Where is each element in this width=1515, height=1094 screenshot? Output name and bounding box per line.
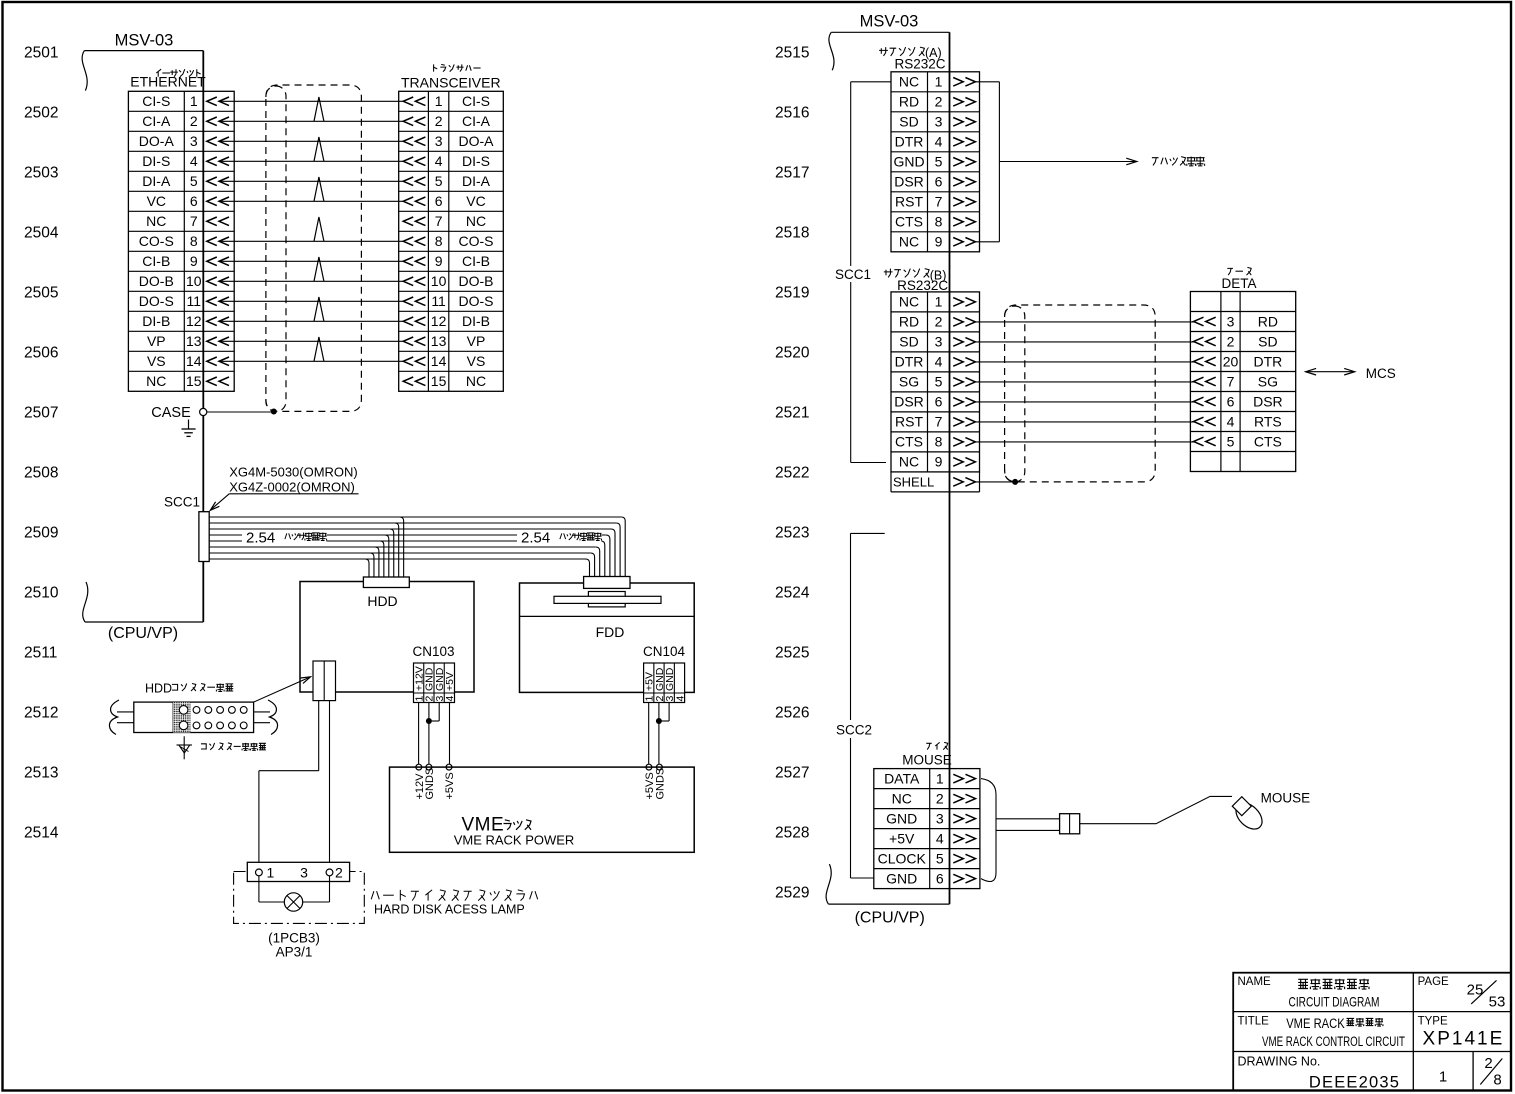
svg-text:DSR: DSR [1253,393,1283,409]
svg-text:DEEE2035: DEEE2035 [1309,1074,1400,1092]
svg-text:TRANSCEIVER: TRANSCEIVER [401,75,501,91]
svg-text:2519: 2519 [775,284,809,301]
svg-text:DTR: DTR [895,354,924,370]
svg-text:2509: 2509 [24,525,58,542]
svg-text:2514: 2514 [24,825,59,842]
svg-text:6: 6 [936,870,944,886]
svg-text:RS232C: RS232C [897,278,948,293]
svg-text:CIRCUIT DIAGRAM: CIRCUIT DIAGRAM [1289,994,1380,1010]
svg-text:2527: 2527 [775,764,809,781]
svg-text:RS232C: RS232C [894,57,945,72]
svg-text:NC: NC [899,294,919,310]
svg-text:2504: 2504 [24,225,59,242]
svg-text:2513: 2513 [24,765,58,782]
svg-text:NC: NC [892,790,912,806]
svg-text:SD: SD [899,114,918,130]
svg-text:RD: RD [899,314,919,330]
svg-text:13: 13 [431,333,447,349]
svg-text:CN104: CN104 [643,644,686,659]
svg-text:HDD: HDD [145,682,172,696]
svg-text:6: 6 [190,193,198,209]
svg-text:DTR: DTR [1254,353,1283,369]
svg-text:6: 6 [435,193,443,209]
svg-text:+5V: +5V [444,672,456,691]
svg-text:DO-S: DO-S [459,293,494,309]
svg-text:SD: SD [899,334,918,350]
svg-text:SHELL: SHELL [893,475,934,490]
svg-text:DSR: DSR [894,174,924,190]
svg-text:2: 2 [335,865,343,881]
svg-text:3: 3 [190,133,198,149]
svg-text:CI-S: CI-S [142,93,170,109]
svg-text:ETHERNET: ETHERNET [130,74,206,90]
svg-text:NC: NC [899,454,919,470]
svg-text:DI-A: DI-A [142,173,171,189]
svg-text:2: 2 [935,314,943,330]
svg-text:2515: 2515 [775,44,809,61]
svg-text:25: 25 [1467,982,1484,999]
svg-text:2512: 2512 [24,705,58,722]
svg-text:NC: NC [899,74,919,90]
svg-text:4: 4 [435,153,443,169]
svg-text:CTS: CTS [895,214,923,230]
svg-text:GND: GND [893,154,924,170]
svg-text:2: 2 [435,113,443,129]
svg-text:2529: 2529 [775,884,809,901]
svg-text:9: 9 [935,234,943,250]
svg-text:GND: GND [664,667,676,691]
svg-text:7: 7 [1227,373,1235,389]
svg-text:DO-A: DO-A [139,133,175,149]
svg-text:2511: 2511 [24,645,57,662]
svg-text:DTR: DTR [895,134,924,150]
svg-text:8: 8 [190,233,198,249]
svg-text:RTS: RTS [1254,413,1282,429]
svg-text:1: 1 [435,93,443,109]
svg-text:DRAWING No.: DRAWING No. [1238,1054,1321,1068]
svg-text:4: 4 [1227,413,1235,429]
svg-text:AP3/1: AP3/1 [276,944,313,959]
svg-text:SG: SG [1258,373,1278,389]
svg-text:2510: 2510 [24,585,59,602]
svg-text:9: 9 [435,253,443,269]
svg-text:DI-B: DI-B [462,313,490,329]
svg-text:4: 4 [936,830,944,846]
svg-text:VME RACK CONTROL CIRCUIT: VME RACK CONTROL CIRCUIT [1262,1034,1405,1049]
svg-text:DI-B: DI-B [142,313,170,329]
svg-text:13: 13 [186,333,202,349]
svg-text:2: 2 [1227,333,1235,349]
svg-text:XG4Z-0002(OMRON): XG4Z-0002(OMRON) [229,479,355,494]
svg-text:GNDS: GNDS [654,768,666,800]
svg-text:CI-A: CI-A [462,113,491,129]
svg-text:2: 2 [936,790,944,806]
svg-text:SG: SG [899,374,919,390]
svg-text:3: 3 [1227,313,1235,329]
svg-text:CI-B: CI-B [142,253,170,269]
svg-text:1: 1 [936,770,944,786]
svg-text:VME RACK: VME RACK [1286,1016,1345,1031]
svg-text:DETA: DETA [1221,276,1256,291]
svg-text:DSR: DSR [894,394,924,410]
svg-text:VS: VS [467,353,486,369]
svg-text:2507: 2507 [24,405,58,422]
svg-text:8: 8 [935,214,943,230]
svg-text:TITLE: TITLE [1238,1015,1270,1027]
svg-text:(1PCB3): (1PCB3) [268,930,320,945]
svg-text:2522: 2522 [775,464,809,481]
svg-text:1: 1 [935,74,943,90]
svg-text:2: 2 [935,94,943,110]
svg-text:3: 3 [435,133,443,149]
svg-text:15: 15 [186,373,202,389]
svg-text:4: 4 [935,134,943,150]
svg-text:7: 7 [935,414,943,430]
svg-text:DO-B: DO-B [459,273,494,289]
svg-text:2503: 2503 [24,165,58,182]
svg-text:CASE: CASE [151,405,191,421]
svg-text:SCC1: SCC1 [835,267,871,282]
svg-text:VME RACK POWER: VME RACK POWER [454,832,575,847]
svg-text:2: 2 [190,113,198,129]
svg-text:7: 7 [190,213,198,229]
svg-text:+5VS: +5VS [444,772,456,799]
svg-text:2518: 2518 [775,224,809,241]
svg-text:+5V: +5V [889,830,915,846]
svg-text:9: 9 [190,253,198,269]
svg-text:9: 9 [935,454,943,470]
svg-text:NC: NC [146,373,166,389]
svg-text:(CPU/VP): (CPU/VP) [855,910,925,927]
svg-text:NC: NC [899,234,919,250]
svg-text:5: 5 [936,850,944,866]
svg-text:NC: NC [146,213,166,229]
svg-text:2526: 2526 [775,704,809,721]
svg-text:VP: VP [467,333,486,349]
svg-text:3: 3 [300,865,308,881]
svg-text:2516: 2516 [775,104,809,121]
svg-text:MSV-03: MSV-03 [860,13,919,31]
svg-text:DO-S: DO-S [139,293,174,309]
svg-text:3: 3 [935,334,943,350]
svg-text:2502: 2502 [24,105,58,122]
svg-text:PAGE: PAGE [1418,976,1449,988]
svg-text:2508: 2508 [24,465,58,482]
svg-text:11: 11 [187,293,202,309]
svg-text:CLOCK: CLOCK [878,850,927,866]
svg-text:GND: GND [886,870,917,886]
svg-text:DI-S: DI-S [462,153,490,169]
svg-text:7: 7 [435,213,443,229]
svg-text:2521: 2521 [775,404,809,421]
svg-text:CI-B: CI-B [462,253,490,269]
svg-text:2520: 2520 [775,344,810,361]
svg-text:DI-S: DI-S [142,153,170,169]
svg-text:2501: 2501 [24,45,58,62]
svg-text:5: 5 [435,173,443,189]
svg-text:10: 10 [186,273,202,289]
svg-text:(CPU/VP): (CPU/VP) [108,625,178,642]
svg-text:4: 4 [935,354,943,370]
svg-text:15: 15 [431,373,447,389]
svg-text:2.54: 2.54 [521,530,550,547]
svg-text:14: 14 [431,353,447,369]
svg-text:4: 4 [674,696,686,702]
svg-text:4: 4 [444,696,456,702]
svg-text:RD: RD [899,94,919,110]
svg-text:14: 14 [186,353,202,369]
svg-text:2525: 2525 [775,644,809,661]
svg-text:GNDS: GNDS [424,768,436,800]
svg-text:8: 8 [935,434,943,450]
svg-text:CTS: CTS [895,434,923,450]
svg-text:CO-S: CO-S [459,233,494,249]
svg-text:5: 5 [935,154,943,170]
svg-text:MOUSE: MOUSE [1261,790,1311,805]
svg-text:1: 1 [190,93,198,109]
svg-text:1: 1 [1439,1069,1447,1086]
svg-text:SD: SD [1258,333,1277,349]
svg-text:CI-A: CI-A [142,113,171,129]
svg-text:RST: RST [895,414,923,430]
svg-text:6: 6 [935,394,943,410]
svg-text:GND: GND [886,810,917,826]
svg-text:NC: NC [466,213,486,229]
svg-text:3: 3 [935,114,943,130]
svg-text:XG4M-5030(OMRON): XG4M-5030(OMRON) [229,464,358,479]
svg-text:CN103: CN103 [412,644,454,659]
svg-text:VP: VP [147,333,166,349]
svg-text:DO-B: DO-B [139,273,174,289]
svg-text:2524: 2524 [775,584,810,601]
svg-text:2: 2 [1484,1055,1492,1072]
svg-text:FDD: FDD [596,624,625,640]
svg-text:5: 5 [1227,433,1235,449]
svg-text:5: 5 [190,173,198,189]
svg-text:SCC2: SCC2 [836,723,872,738]
svg-text:DATA: DATA [884,770,920,786]
svg-text:2517: 2517 [775,164,809,181]
svg-text:12: 12 [431,313,447,329]
svg-text:VS: VS [147,353,166,369]
svg-text:VC: VC [147,193,166,209]
svg-text:1: 1 [267,865,275,881]
svg-text:8: 8 [1493,1072,1501,1089]
svg-text:11: 11 [431,293,446,309]
svg-text:RST: RST [895,194,923,210]
svg-text:SCC1: SCC1 [164,495,200,510]
svg-text:MCS: MCS [1366,366,1396,381]
svg-text:10: 10 [431,273,447,289]
svg-text:CTS: CTS [1254,433,1282,449]
svg-text:HDD: HDD [367,593,397,609]
svg-text:12: 12 [186,313,202,329]
svg-text:2528: 2528 [775,824,809,841]
svg-text:8: 8 [435,233,443,249]
svg-text:53: 53 [1489,994,1506,1011]
svg-text:2505: 2505 [24,285,58,302]
svg-text:4: 4 [190,153,198,169]
svg-text:2506: 2506 [24,345,58,362]
svg-text:20: 20 [1223,353,1239,369]
svg-text:5: 5 [935,374,943,390]
svg-text:NAME: NAME [1238,976,1272,988]
svg-text:MOUSE: MOUSE [902,752,952,767]
svg-text:HARD DISK ACESS LAMP: HARD DISK ACESS LAMP [374,903,525,917]
svg-text:DO-A: DO-A [459,133,495,149]
svg-text:3: 3 [936,810,944,826]
svg-text:6: 6 [1227,393,1235,409]
svg-text:DI-A: DI-A [462,173,491,189]
svg-text:7: 7 [935,194,943,210]
svg-text:2523: 2523 [775,524,809,541]
svg-text:1: 1 [935,294,943,310]
svg-text:2.54: 2.54 [246,530,275,547]
svg-text:CO-S: CO-S [139,233,174,249]
svg-text:NC: NC [466,373,486,389]
svg-text:RD: RD [1258,313,1278,329]
svg-text:TYPE: TYPE [1418,1015,1448,1027]
svg-text:XP141E: XP141E [1423,1029,1505,1050]
svg-text:MSV-03: MSV-03 [115,32,174,50]
svg-text:6: 6 [935,174,943,190]
svg-text:CI-S: CI-S [462,93,490,109]
svg-text:VC: VC [466,193,485,209]
